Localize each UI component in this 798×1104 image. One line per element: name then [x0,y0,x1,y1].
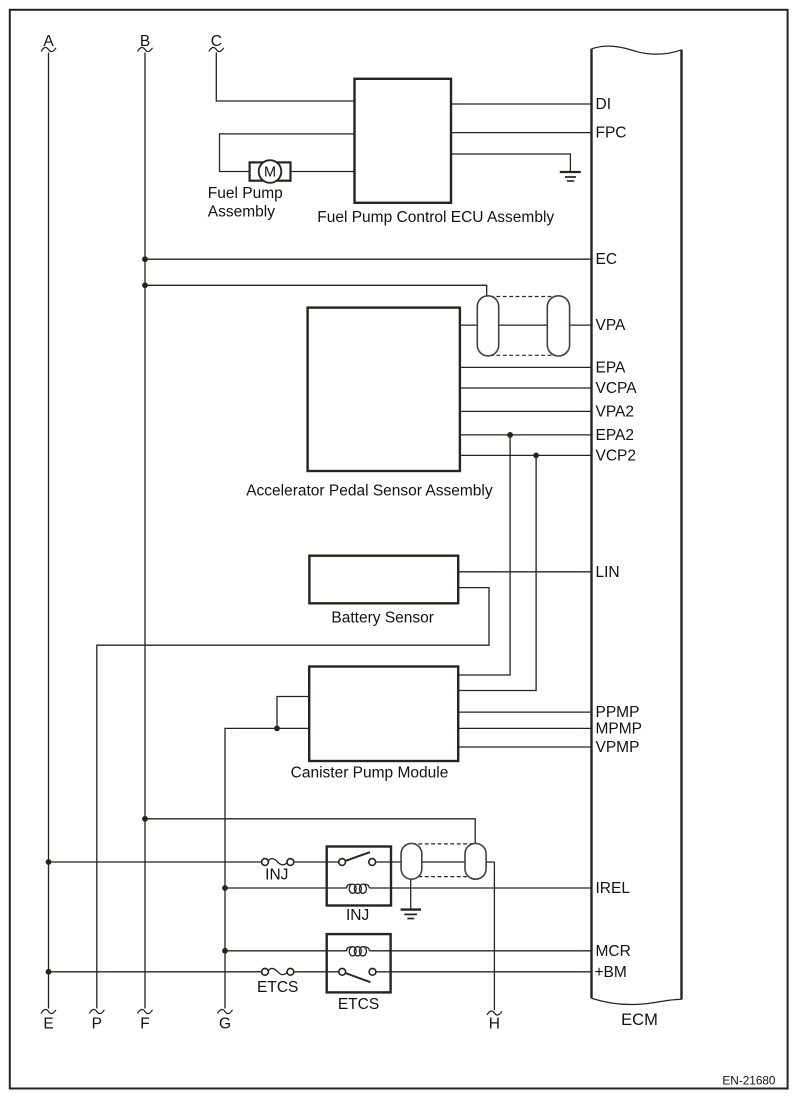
svg-text:Canister Pump Module: Canister Pump Module [291,765,449,782]
wire: VPMP pin [458,746,591,748]
junction on A at +BM [46,969,52,975]
wire: fuel pump loop upper branch [220,134,355,172]
junction on EPA2 [507,432,513,438]
fuse ETCS symbol [268,968,288,974]
INJ relay coil [347,884,370,893]
node B break squiggle [138,47,153,51]
svg-text:EN-21680: EN-21680 [722,1074,776,1088]
wire: VCP2 branch down to canister pump module [458,455,536,690]
node P break squiggle [89,1009,104,1013]
wire: FPC pin [451,132,592,134]
svg-text:MPMP: MPMP [596,720,643,737]
svg-text:MCR: MCR [596,943,631,960]
wire: shield connector ground drop [410,879,412,909]
box: Battery Sensor [309,556,458,604]
shield connector capsule 3 (IREL) [401,843,422,879]
wire: vertical line A (top) to E (bottom) [48,53,50,1009]
shield dashed box (VPA) [490,296,556,298]
svg-text:Accelerator Pedal Sensor Assem: Accelerator Pedal Sensor Assembly [246,482,493,499]
ground G1 bars (near fuel pump ECU) [560,171,581,173]
box: ETCS relay [327,934,391,992]
junction on F branch [142,816,148,822]
wire: EC pin from line B [145,258,592,260]
wire: EPA2 pin [460,434,592,436]
wire: +BM feed from line A [49,971,262,973]
svg-text:INJ: INJ [346,907,369,924]
wire: INJ switch feed from line A [49,861,262,863]
shield dashed box (IREL) [412,843,475,845]
node E break squiggle [41,1009,56,1013]
node C break squiggle [209,47,224,51]
svg-text:VCPA: VCPA [596,380,638,397]
svg-text:M: M [264,165,276,181]
shield connector capsule 2 (VPA) [547,296,569,356]
svg-text:FPC: FPC [596,125,627,142]
wire: VPA2 pin [460,410,592,412]
wire: ETCS fuse to relay box [294,971,340,973]
shield connector capsule 1 (VPA) [477,296,498,356]
junction on VCP2 [533,453,539,459]
ETCS relay coil [347,947,370,956]
wire: MPMP pin [458,727,591,729]
wire: EPA2 branch down to canister pump module [458,435,510,675]
wire: line F branch to IREL shield connector [145,819,475,844]
wire: EPA pin [460,366,592,368]
svg-text:F: F [140,1016,149,1033]
svg-text:VPMP: VPMP [596,739,640,756]
wire: MCR pin from line G through ETCS coil [225,950,347,952]
svg-text:LIN: LIN [596,564,620,581]
svg-text:A: A [43,33,54,50]
box: Accelerator Pedal Sensor Assembly [308,308,460,471]
fuel pump motor symbol [250,162,291,180]
node F break squiggle [138,1009,153,1013]
svg-text:Fuel Pump: Fuel Pump [208,185,283,202]
svg-text:Assembly: Assembly [208,204,275,221]
svg-text:EPA: EPA [596,359,627,376]
wire: INJ switch to shielded connector [375,861,494,863]
svg-text:VCP2: VCP2 [596,447,637,464]
junction on G at MCR [222,948,228,954]
node A break squiggle [41,47,56,51]
wire: DI pin [451,103,592,105]
svg-text:VPA2: VPA2 [596,403,635,420]
svg-text:PPMP: PPMP [596,704,640,721]
wire: H drop line [493,862,495,1010]
wire: ECU ground branch [451,154,570,171]
junction at canister pump module left [274,726,280,732]
ECM band torn bottom edge [592,998,682,1004]
svg-text:G: G [219,1016,231,1033]
svg-text:H: H [489,1016,500,1033]
svg-text:E: E [43,1016,53,1033]
wire: line G up to canister pump module [225,728,309,1008]
wire: VPA pin through shielded connectors [460,324,592,326]
svg-text:+BM: +BM [595,964,627,981]
svg-text:C: C [211,33,222,50]
wire: VCP2 pin [460,454,592,456]
wire: motor to ECU box [291,171,355,173]
shield connector capsule 4 (IREL) [465,843,486,879]
junction on A at INJ feed [46,859,52,865]
box: INJ relay [327,847,391,906]
fuse INJ symbol [268,859,288,865]
svg-text:ECM: ECM [621,1011,658,1029]
junction on B at shield wire [142,282,148,288]
svg-text:DI: DI [596,96,612,113]
wire: INJ fuse to relay box [294,861,339,863]
ECM band torn top edge [592,46,682,54]
svg-text:ETCS: ETCS [338,996,379,1013]
svg-text:INJ: INJ [265,866,288,883]
wire: LIN pin [458,571,591,573]
svg-text:Battery Sensor: Battery Sensor [331,610,434,627]
wire: ETCS switch to +BM pin [376,971,592,973]
svg-text:Fuel Pump Control ECU Assembly: Fuel Pump Control ECU Assembly [317,209,554,226]
wire: PPMP pin [458,711,591,713]
wire: VCPA pin [460,387,592,389]
ETCS relay switch [346,973,371,982]
junction on G at IREL [222,885,228,891]
svg-text:ETCS: ETCS [257,979,298,996]
wire: line C down and right to Fuel Pump Control ECU [216,53,354,102]
svg-text:B: B [140,33,150,50]
ECM connector band right edge [680,50,682,1000]
ground G2 bars (below shield connector) [401,908,421,910]
ECM connector band left edge [590,49,592,998]
svg-text:EC: EC [596,251,618,268]
svg-text:IREL: IREL [596,880,631,897]
node H break squiggle [487,1011,502,1015]
wire: IREL pin from line G through relay coil [225,887,347,889]
wire: vertical line B (top) to F (bottom) [144,53,146,1009]
wire: canister pump module upper-left branch [277,697,309,729]
junction on B at EC [142,256,148,262]
node G break squiggle [218,1009,233,1013]
wire: battery sensor to line P [97,588,489,1009]
box: Canister Pump Module [309,667,458,762]
svg-text:VPA: VPA [596,317,627,334]
svg-text:P: P [92,1016,102,1033]
svg-text:EPA2: EPA2 [596,427,635,444]
wire: shield drain from line B to VPA shield [145,285,487,296]
INJ relay switch [346,852,370,861]
box: Fuel Pump Control ECU Assembly [355,79,452,203]
